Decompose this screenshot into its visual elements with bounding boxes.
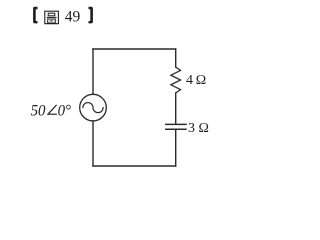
svg-text:4 Ω: 4 Ω (186, 73, 206, 88)
svg-text:3 Ω: 3 Ω (188, 121, 209, 136)
svg-text:0°: 0° (58, 102, 71, 120)
svg-text:50: 50 (31, 102, 46, 120)
svg-text:49: 49 (65, 9, 81, 26)
